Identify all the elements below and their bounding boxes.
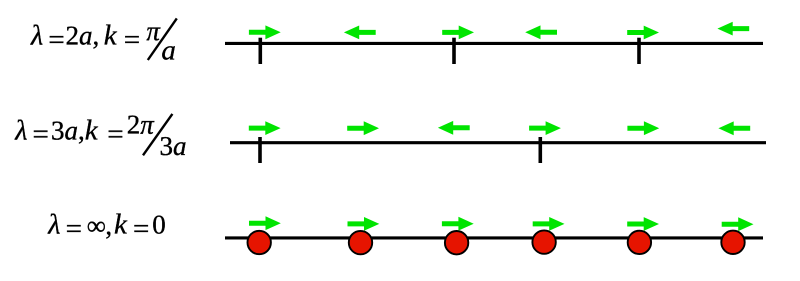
row 3 arrow 2 right: [348, 217, 380, 231]
svg-text:λ: λ: [47, 210, 60, 241]
row 2 lattice line: [230, 141, 766, 144]
svg-text:3a: 3a: [160, 131, 187, 161]
svg-text:2a,: 2a,: [66, 21, 100, 51]
svg-text:=: =: [33, 119, 49, 151]
svg-text:=: =: [66, 213, 82, 245]
row 1 arrow 6 left: [717, 22, 749, 36]
row 3 lattice line: [225, 236, 763, 239]
svg-text:0: 0: [152, 210, 166, 240]
svg-text:k: k: [85, 114, 99, 146]
row 3 arrow 3 right: [442, 217, 474, 231]
row 1 arrow 2 left: [344, 26, 376, 40]
row 2 tick 2: [538, 137, 542, 163]
row 3 arrow 4 right: [533, 217, 565, 231]
row 2 arrow 5 right: [627, 121, 659, 135]
row 1 arrow 3 right: [442, 26, 474, 40]
row 1 lattice line: [225, 42, 763, 45]
row 2 arrow 6 left: [718, 121, 750, 135]
row 2 arrow 2 right: [347, 121, 379, 135]
row 3 atom 3: [445, 231, 468, 254]
row 1 tick 1: [258, 38, 262, 64]
label row 3: lambda = infinity, k = 0: [47, 209, 165, 245]
svg-text:=: =: [124, 24, 140, 56]
svg-text:k: k: [104, 20, 118, 52]
row 1 tick 2: [452, 38, 456, 64]
row 3 atom 2: [349, 231, 372, 254]
row 2 arrow 4 right: [529, 121, 561, 135]
svg-text:=: =: [107, 119, 123, 151]
svg-text:λ: λ: [14, 115, 27, 146]
row 2 arrow 3 left: [438, 121, 470, 135]
svg-text:a: a: [161, 35, 176, 67]
label row 2: lambda = 3a, k = 2pi/3a: [14, 109, 186, 161]
svg-text:∞: ∞: [87, 210, 106, 240]
row 1 tick 3: [637, 38, 641, 64]
svg-text:3a,: 3a,: [51, 115, 85, 145]
svg-text:λ: λ: [30, 21, 43, 52]
svg-text:π: π: [146, 16, 161, 46]
row 3 arrow 1 right: [249, 216, 281, 230]
row 3 atom 1: [248, 231, 271, 254]
row 3 arrow 5 right: [627, 217, 659, 231]
row 1 arrow 4 left: [525, 25, 557, 39]
svg-text:2π: 2π: [127, 109, 156, 139]
row 3 arrow 6 right: [722, 217, 754, 231]
row 1 arrow 1 right: [249, 25, 281, 39]
row 1 arrow 5 right: [627, 26, 659, 40]
row 3 atom 5: [628, 231, 651, 254]
row 2 tick 1: [258, 137, 262, 163]
svg-text:=: =: [48, 24, 64, 56]
svg-text:,: ,: [105, 211, 112, 241]
label row 1: lambda = 2a, k = pi/a: [30, 16, 177, 67]
row 3 atom 6: [721, 231, 744, 254]
row 3 atom 4: [532, 230, 555, 253]
svg-text:=: =: [133, 213, 149, 245]
row 2 arrow 1 right: [249, 121, 281, 135]
svg-text:k: k: [114, 209, 128, 241]
